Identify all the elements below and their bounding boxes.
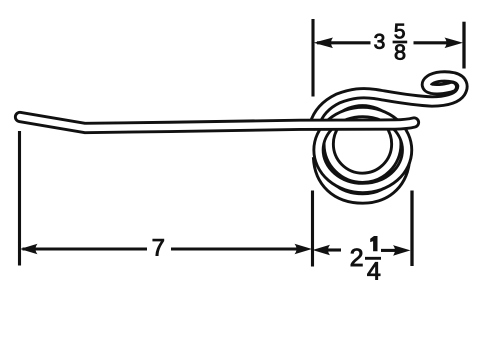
"2 1/4" dimension right arrowhead — [393, 245, 411, 256]
tine prong crossing in front of coil — [20, 117, 414, 128]
label 2 of "2 1/4" — [351, 249, 362, 266]
"2 1/4" dimension left arrowhead (points left, tip at shared witness) — [313, 245, 331, 256]
fraction 1/4 of "2 1/4" — [371, 236, 378, 250]
dimension witness line right of top dim (hook outer edge) — [462, 22, 465, 69]
witness line left of "7" dim (tine tip) — [18, 131, 21, 266]
"2 1/4" dimension right stub — [381, 249, 397, 252]
"7" dimension line right segment — [171, 247, 299, 250]
top dimension left arrowhead — [314, 38, 334, 49]
"2 1/4" dimension left stub — [326, 248, 341, 251]
label 3 of "3 5/8" — [374, 34, 384, 49]
dimension witness line left of top dim (coil left edge, upper part) — [311, 19, 314, 97]
spring coil outer turn — [319, 112, 408, 188]
"7" dimension line left segment — [23, 247, 148, 250]
top dimension line right segment — [414, 41, 451, 44]
top dimension line left segment — [317, 41, 371, 44]
spring coil outermost sagging bottom turn — [318, 157, 405, 199]
"7" dimension right arrowhead — [295, 244, 313, 255]
witness line at coil right edge — [410, 191, 413, 267]
spring coil inner turn — [329, 110, 397, 178]
shared witness line at coil left edge (lower part) — [311, 191, 314, 267]
label 7 of bottom dimension — [153, 239, 164, 255]
"7" dimension left arrowhead — [20, 244, 38, 255]
top dimension right arrowhead — [445, 38, 464, 49]
spring end hook with curl — [315, 76, 463, 124]
fraction 5/8 of top dimension — [395, 24, 405, 39]
